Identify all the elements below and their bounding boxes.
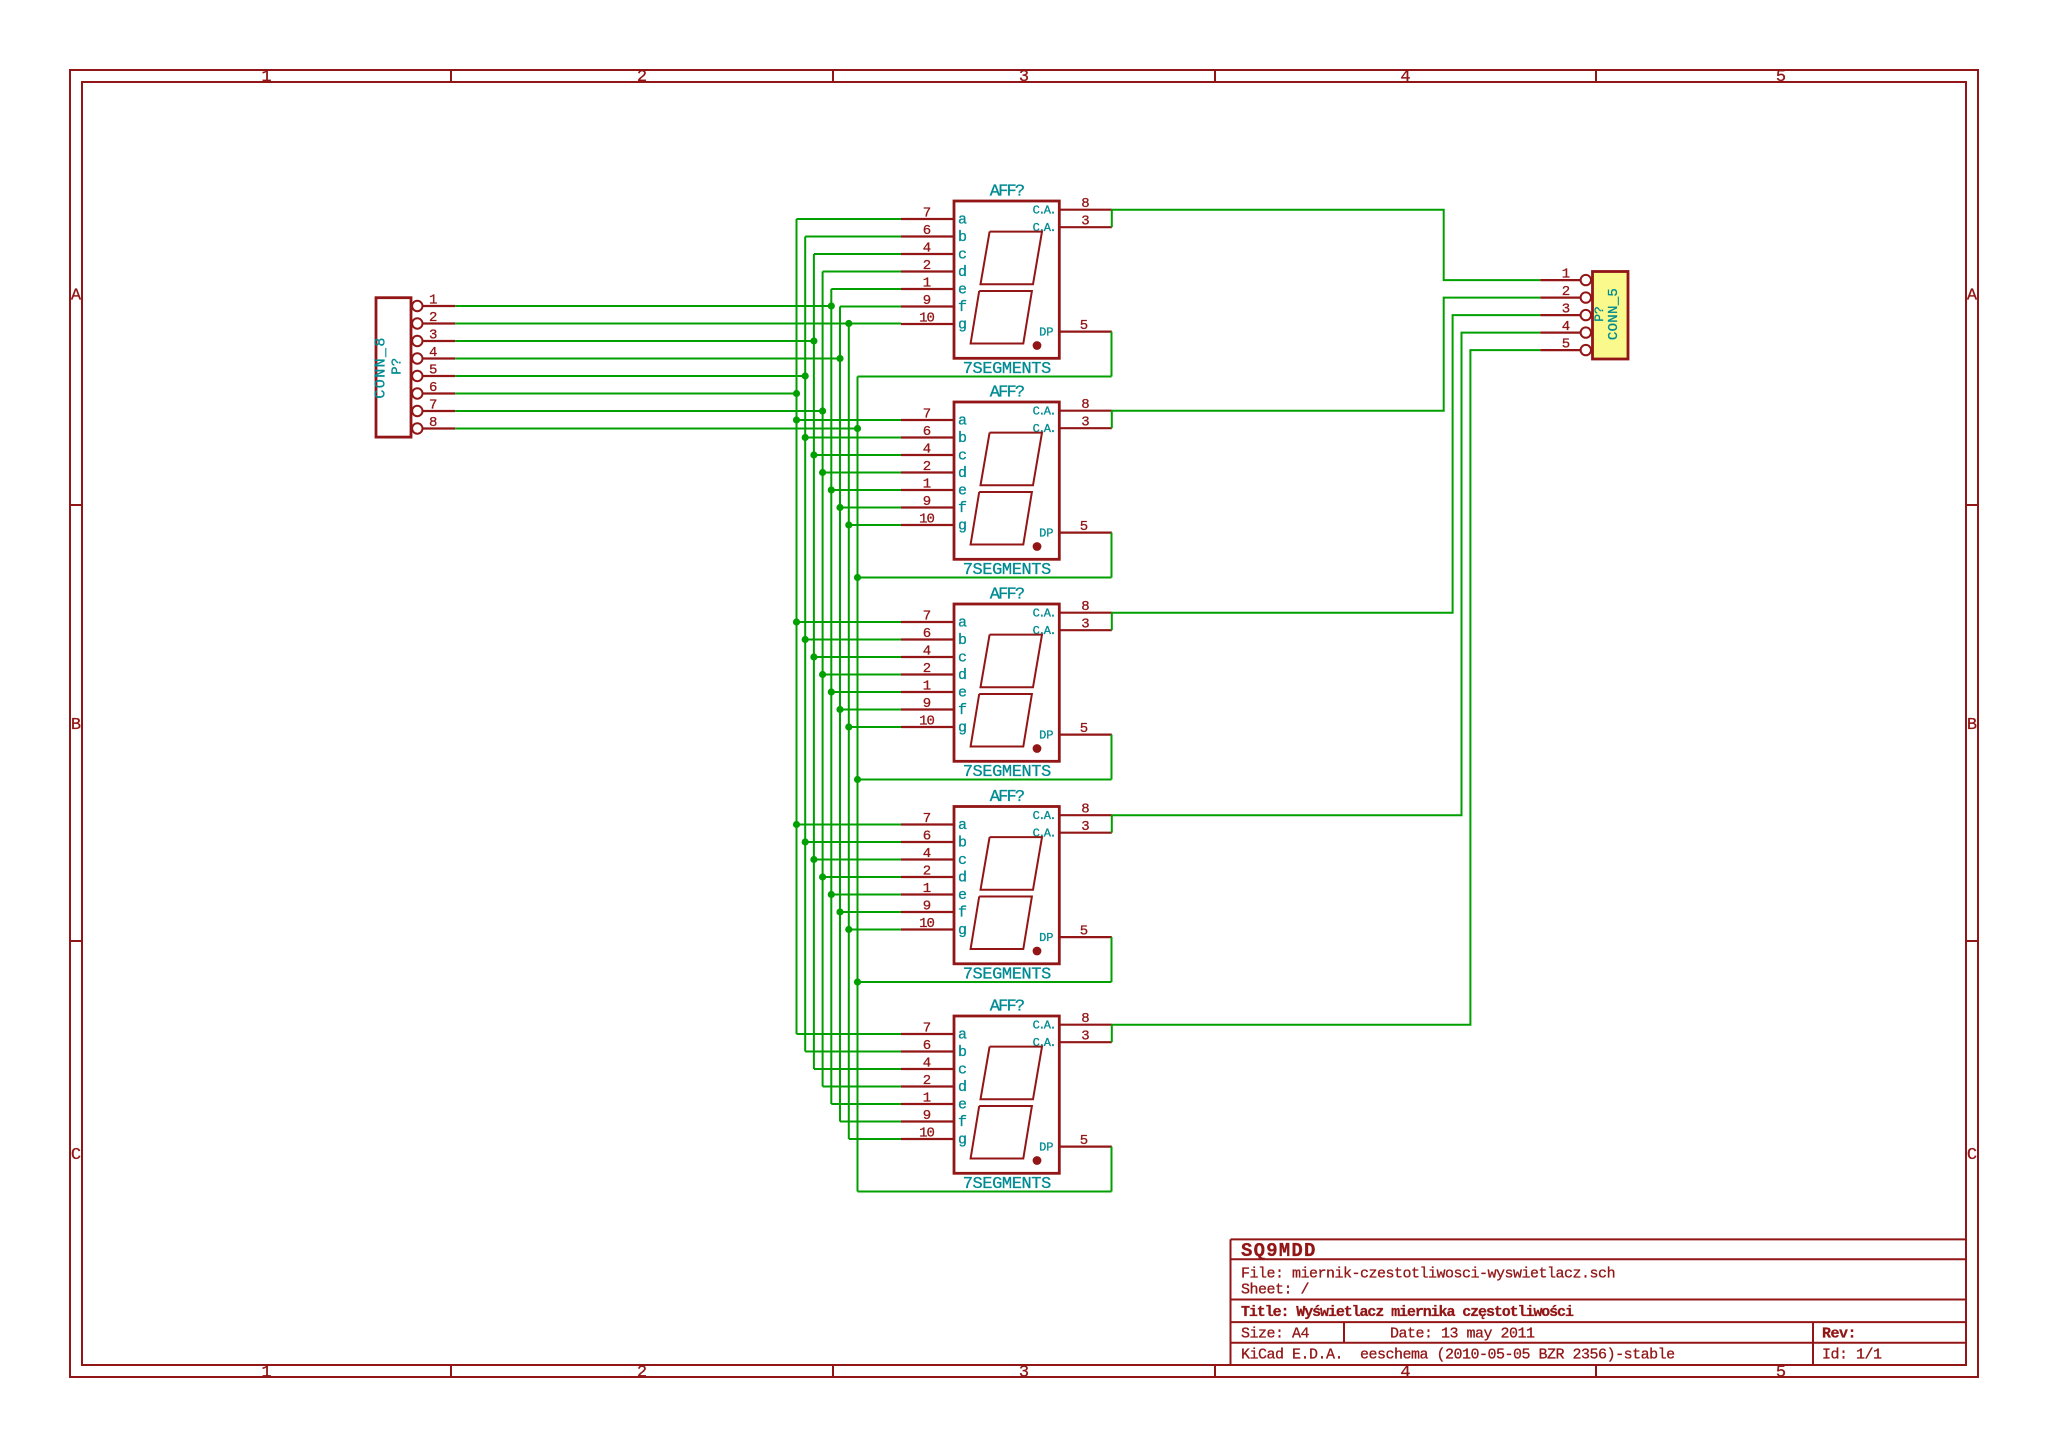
svg-text:1: 1 <box>923 881 931 897</box>
svg-text:4: 4 <box>1400 68 1410 87</box>
svg-text:1: 1 <box>429 293 437 309</box>
svg-text:DP: DP <box>1039 729 1053 743</box>
svg-text:4: 4 <box>923 442 931 458</box>
svg-text:4: 4 <box>923 1056 931 1072</box>
svg-text:8: 8 <box>1081 397 1089 413</box>
svg-text:4: 4 <box>923 241 931 257</box>
svg-text:6: 6 <box>923 626 931 642</box>
svg-text:C.A.: C.A. <box>1033 405 1055 419</box>
svg-text:9: 9 <box>923 494 931 510</box>
svg-text:C.A.: C.A. <box>1033 422 1055 436</box>
svg-text:8: 8 <box>1081 1011 1089 1027</box>
svg-text:C.A.: C.A. <box>1033 827 1055 841</box>
svg-text:a: a <box>958 1027 967 1044</box>
svg-text:2: 2 <box>1562 284 1570 300</box>
svg-text:b: b <box>958 1044 967 1061</box>
svg-text:a: a <box>958 615 967 632</box>
svg-text:AFF?: AFF? <box>990 586 1024 605</box>
svg-text:5: 5 <box>1080 721 1088 737</box>
svg-text:4: 4 <box>429 345 437 361</box>
svg-text:d: d <box>958 465 967 482</box>
svg-text:b: b <box>958 632 967 649</box>
svg-text:d: d <box>958 1079 967 1096</box>
svg-text:DP: DP <box>1039 1141 1053 1155</box>
svg-text:KiCad E.D.A. eeschema (2010-0: KiCad E.D.A. eeschema (2010-05-05 BZR 23… <box>1241 1347 1675 1364</box>
svg-text:c: c <box>958 852 967 869</box>
svg-text:SQ9MDD: SQ9MDD <box>1241 1240 1317 1262</box>
svg-text:2: 2 <box>637 68 647 87</box>
svg-text:10: 10 <box>919 1126 934 1142</box>
svg-text:DP: DP <box>1039 326 1053 340</box>
svg-text:Title: Wyświetlacz miernika cz: Title: Wyświetlacz miernika częstotliwoś… <box>1241 1304 1574 1321</box>
svg-text:P?: P? <box>390 358 406 375</box>
svg-text:5: 5 <box>1776 1364 1786 1383</box>
svg-text:10: 10 <box>919 916 934 932</box>
svg-text:5: 5 <box>1080 519 1088 535</box>
svg-text:5: 5 <box>1776 68 1786 87</box>
svg-text:b: b <box>958 229 967 246</box>
svg-text:3: 3 <box>1081 819 1089 835</box>
svg-text:9: 9 <box>923 696 931 712</box>
svg-text:4: 4 <box>923 846 931 862</box>
svg-text:7: 7 <box>923 1021 931 1037</box>
svg-text:b: b <box>958 835 967 852</box>
svg-text:e: e <box>958 685 967 702</box>
svg-text:6: 6 <box>923 1038 931 1054</box>
svg-text:c: c <box>958 1062 967 1079</box>
svg-text:1: 1 <box>261 68 271 87</box>
svg-text:c: c <box>958 448 967 465</box>
svg-text:1: 1 <box>923 477 931 493</box>
svg-text:C: C <box>71 1146 81 1165</box>
svg-text:9: 9 <box>923 293 931 309</box>
svg-text:1: 1 <box>1562 267 1570 283</box>
svg-text:10: 10 <box>919 311 934 327</box>
svg-text:CONN_8: CONN_8 <box>372 336 389 398</box>
svg-text:f: f <box>958 905 967 922</box>
svg-text:f: f <box>958 702 967 719</box>
svg-text:5: 5 <box>1080 318 1088 334</box>
svg-text:10: 10 <box>919 512 934 528</box>
svg-text:2: 2 <box>923 258 931 274</box>
svg-text:DP: DP <box>1039 527 1053 541</box>
svg-text:C.A.: C.A. <box>1033 607 1055 621</box>
svg-text:6: 6 <box>923 424 931 440</box>
svg-text:e: e <box>958 1097 967 1114</box>
svg-text:3: 3 <box>1081 1029 1089 1045</box>
svg-text:5: 5 <box>1080 924 1088 940</box>
svg-text:g: g <box>958 720 967 737</box>
svg-text:8: 8 <box>1081 802 1089 818</box>
svg-text:d: d <box>958 870 967 887</box>
svg-text:Sheet: /: Sheet: / <box>1241 1282 1310 1299</box>
svg-text:3: 3 <box>429 328 437 344</box>
svg-text:Rev:: Rev: <box>1822 1326 1856 1343</box>
svg-text:g: g <box>958 317 967 334</box>
svg-text:a: a <box>958 212 967 229</box>
svg-text:6: 6 <box>429 380 437 396</box>
svg-text:6: 6 <box>923 223 931 239</box>
svg-text:A: A <box>71 287 82 306</box>
svg-text:e: e <box>958 282 967 299</box>
svg-text:C.A.: C.A. <box>1033 1036 1055 1050</box>
svg-text:Size: A4: Size: A4 <box>1241 1326 1310 1343</box>
svg-text:B: B <box>1967 716 1977 735</box>
svg-text:Date: 13 may 2011: Date: 13 may 2011 <box>1390 1326 1535 1343</box>
svg-text:7: 7 <box>923 407 931 423</box>
svg-text:3: 3 <box>1081 415 1089 431</box>
svg-text:3: 3 <box>1019 68 1029 87</box>
svg-text:g: g <box>958 922 967 939</box>
svg-text:B: B <box>71 716 81 735</box>
svg-text:5: 5 <box>1562 337 1570 353</box>
svg-text:CONN_5: CONN_5 <box>1606 288 1622 340</box>
svg-text:c: c <box>958 650 967 667</box>
svg-text:DP: DP <box>1039 931 1053 945</box>
svg-text:a: a <box>958 413 967 430</box>
svg-text:Id: 1/1: Id: 1/1 <box>1822 1347 1882 1364</box>
svg-text:3: 3 <box>1562 302 1570 318</box>
svg-text:C.A.: C.A. <box>1033 624 1055 638</box>
svg-text:AFF?: AFF? <box>990 384 1024 403</box>
svg-text:7: 7 <box>923 811 931 827</box>
svg-text:File: miernik-czestotliwosci-w: File: miernik-czestotliwosci-wyswietlacz… <box>1241 1266 1615 1283</box>
svg-text:4: 4 <box>1562 319 1570 335</box>
svg-text:3: 3 <box>1081 617 1089 633</box>
svg-text:2: 2 <box>923 864 931 880</box>
svg-text:9: 9 <box>923 899 931 915</box>
svg-text:f: f <box>958 500 967 517</box>
svg-text:A: A <box>1967 287 1978 306</box>
svg-text:a: a <box>958 817 967 834</box>
svg-text:2: 2 <box>923 1073 931 1089</box>
svg-text:b: b <box>958 430 967 447</box>
svg-text:1: 1 <box>923 1091 931 1107</box>
svg-text:10: 10 <box>919 714 934 730</box>
svg-text:9: 9 <box>923 1108 931 1124</box>
svg-text:AFF?: AFF? <box>990 998 1024 1017</box>
svg-text:d: d <box>958 667 967 684</box>
svg-text:C.A.: C.A. <box>1033 221 1055 235</box>
svg-text:1: 1 <box>923 679 931 695</box>
svg-text:2: 2 <box>637 1364 647 1383</box>
svg-text:2: 2 <box>923 661 931 677</box>
svg-text:7: 7 <box>923 206 931 222</box>
svg-text:C.A.: C.A. <box>1033 809 1055 823</box>
svg-text:8: 8 <box>1081 196 1089 212</box>
svg-text:f: f <box>958 299 967 316</box>
svg-text:2: 2 <box>429 310 437 326</box>
svg-text:1: 1 <box>261 1364 271 1383</box>
svg-text:4: 4 <box>923 644 931 660</box>
svg-text:f: f <box>958 1114 967 1131</box>
svg-text:8: 8 <box>1081 599 1089 615</box>
svg-text:e: e <box>958 483 967 500</box>
svg-text:3: 3 <box>1081 214 1089 230</box>
svg-text:7: 7 <box>923 609 931 625</box>
svg-text:6: 6 <box>923 829 931 845</box>
svg-text:AFF?: AFF? <box>990 788 1024 807</box>
svg-text:g: g <box>958 518 967 535</box>
svg-text:7: 7 <box>429 398 437 414</box>
svg-text:P?: P? <box>1592 306 1607 322</box>
svg-text:5: 5 <box>429 363 437 379</box>
svg-text:2: 2 <box>923 459 931 475</box>
svg-text:4: 4 <box>1400 1364 1410 1383</box>
svg-text:C: C <box>1967 1146 1977 1165</box>
svg-text:C.A.: C.A. <box>1033 1019 1055 1033</box>
svg-text:e: e <box>958 887 967 904</box>
svg-text:g: g <box>958 1132 967 1149</box>
svg-text:1: 1 <box>923 276 931 292</box>
svg-text:8: 8 <box>429 415 437 431</box>
svg-text:3: 3 <box>1019 1364 1029 1383</box>
svg-text:AFF?: AFF? <box>990 183 1024 202</box>
svg-text:d: d <box>958 264 967 281</box>
svg-text:C.A.: C.A. <box>1033 204 1055 218</box>
svg-text:5: 5 <box>1080 1133 1088 1149</box>
svg-text:c: c <box>958 247 967 264</box>
